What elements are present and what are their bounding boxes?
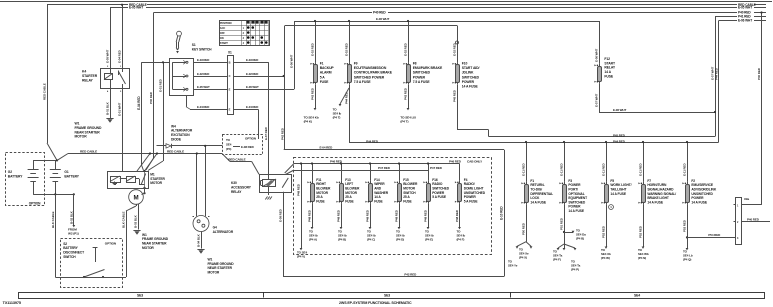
svg-text:(P4 T): (P4 T) [400,120,408,124]
svg-text:E-06 WHT: E-06 WHT [738,19,752,23]
svg-text:S2: S2 [63,242,67,246]
svg-text:B: B [229,60,231,64]
svg-text:ALARM: ALARM [320,71,332,75]
svg-text:E-11 RED: E-11 RED [559,163,563,176]
svg-text:E-02 RED: E-02 RED [403,42,407,56]
svg-text:P52 RED: P52 RED [601,225,605,238]
svg-text:W1: W1 [142,233,147,237]
svg-text:G1: G1 [64,170,68,174]
svg-text:E-03 RED: E-03 RED [197,58,209,62]
svg-text:14 A FUSE: 14 A FUSE [691,200,707,204]
svg-text:P44 RED: P44 RED [613,139,626,143]
svg-text:P48 RED: P48 RED [336,209,340,222]
svg-text:E-11 RED: E-11 RED [601,163,605,176]
svg-text:(P4): (P4) [226,147,231,151]
svg-text:E-04 RED: E-04 RED [320,146,334,150]
svg-text:(P4 C): (P4 C) [367,238,375,242]
svg-text:NEAR STARTER: NEAR STARTER [208,266,233,270]
svg-text:FUSE: FUSE [604,74,613,78]
svg-text:P43 RED: P43 RED [403,87,407,100]
svg-text:E-05 WHT: E-05 WHT [197,85,210,89]
svg-text:F8: F8 [413,62,417,66]
svg-text:E-01 RED: E-01 RED [159,78,163,92]
svg-text:B-02 BLK: B-02 BLK [69,210,73,224]
svg-text:ALTERNATOR: ALTERNATOR [213,230,234,234]
svg-text:E-06 WHT: E-06 WHT [613,108,626,112]
svg-text:ECU/TRANSMISSION: ECU/TRANSMISSION [354,66,387,70]
svg-text:P44 RED: P44 RED [366,139,379,143]
svg-text:(P4 F): (P4 F) [457,238,465,242]
svg-text:E-02 RED: E-02 RED [246,72,258,76]
svg-text:(P4 D): (P4 D) [396,238,404,242]
svg-text:P45 RED: P45 RED [613,134,626,138]
svg-text:MOTOR: MOTOR [150,181,162,185]
svg-text:(P4 B): (P4 B) [576,237,584,241]
svg-text:(P4 X): (P4 X) [519,255,527,259]
svg-text:P52 RED: P52 RED [638,225,642,238]
svg-text:SWITCHED POWER: SWITCHED POWER [354,75,385,79]
svg-text:X9a: X9a [744,197,749,201]
svg-text:B-01 BLK: B-01 BLK [106,101,110,115]
svg-text:P47 RED: P47 RED [378,166,391,170]
svg-text:SWITCHED: SWITCHED [462,75,480,79]
svg-text:E-07 WHT: E-07 WHT [594,94,598,107]
svg-text:(P4 E): (P4 E) [425,238,433,242]
svg-text:(P4 T): (P4 T) [333,116,341,120]
svg-text:SWITCH: SWITCH [63,255,76,259]
svg-text:(P4 P): (P4 P) [571,267,579,271]
svg-text:BATTERY: BATTERY [8,175,23,179]
svg-text:ACCESSORY: ACCESSORY [231,185,252,189]
svg-text:EMU/PARK BRAKE: EMU/PARK BRAKE [413,66,443,70]
svg-text:E-04 RED: E-04 RED [197,105,209,109]
svg-text:E-02 RED: E-02 RED [452,42,456,56]
svg-text:P43 RED: P43 RED [310,87,314,100]
svg-text:14 A FUSE: 14 A FUSE [610,192,626,196]
svg-text:E-06 WHT: E-06 WHT [246,85,259,89]
svg-text:M: M [133,195,138,202]
svg-text:BATTERY: BATTERY [63,246,78,250]
svg-text:P44 RED: P44 RED [714,67,718,80]
svg-text:W1: W1 [208,257,213,261]
svg-text:(P4 K): (P4 K) [304,120,312,124]
svg-text:SE4: SE4 [226,142,232,146]
svg-text:14 A FUSE: 14 A FUSE [647,200,663,204]
svg-text:P54 RED: P54 RED [708,233,721,237]
svg-text:(P4 Q): (P4 Q) [683,257,691,261]
svg-text:(P4 A): (P4 A) [309,238,317,242]
svg-text:P48 RED: P48 RED [365,209,369,222]
svg-text:OPTION: OPTION [29,202,41,206]
svg-text:CAB ONLY: CAB ONLY [467,159,483,163]
svg-text:K30: K30 [231,181,237,185]
svg-text:BATTERY: BATTERY [64,175,79,179]
svg-text:FUSE: FUSE [316,199,325,203]
svg-text:MOTOR: MOTOR [208,271,220,275]
svg-text:FRAME GROUND: FRAME GROUND [142,237,169,241]
svg-text:G2: G2 [8,170,12,174]
svg-text:F1: F1 [320,62,324,66]
svg-text:E-06 WHT: E-06 WHT [594,49,598,62]
svg-text:(P4 N): (P4 N) [638,256,646,260]
svg-text:P40 RED: P40 RED [747,217,760,221]
svg-text:P40 RED: P40 RED [757,67,761,80]
svg-text:START: START [220,41,228,45]
svg-text:TX1113975: TX1113975 [3,301,21,305]
svg-text:ON: ON [220,36,224,40]
svg-text:NEAR STARTER: NEAR STARTER [142,242,167,246]
svg-text:14 A FUSE: 14 A FUSE [530,200,546,204]
svg-text:P50 RED: P50 RED [521,222,525,235]
svg-text:B-04 BLK: B-04 BLK [197,233,201,247]
svg-text:E-02 RED: E-02 RED [197,72,209,76]
svg-text:E-04 RED: E-04 RED [246,105,258,109]
svg-text:E-02 RED: E-02 RED [310,42,314,56]
svg-text:OPTION: OPTION [105,242,117,246]
svg-text:FUSE: FUSE [403,199,412,203]
svg-text:SE4 Ye: SE4 Ye [508,263,518,267]
svg-text:P40 RED: P40 RED [149,91,153,104]
svg-text:E-05 WHT: E-05 WHT [738,6,752,10]
svg-text:POWER: POWER [413,75,426,79]
svg-text:5 A FUSE: 5 A FUSE [464,199,479,203]
svg-text:5 A: 5 A [320,75,326,79]
svg-text:FUSE: FUSE [320,80,329,84]
svg-text:E-05 WHT: E-05 WHT [106,50,110,63]
svg-text:KEY SWITCH: KEY SWITCH [192,48,212,52]
svg-text:POSITION: POSITION [220,21,232,25]
svg-text:STARTER: STARTER [150,177,165,181]
svg-text:SE3: SE3 [384,293,390,297]
svg-text:CONTROL/PARK BRAKE: CONTROL/PARK BRAKE [354,71,393,75]
svg-text:P53 RED: P53 RED [682,219,686,232]
svg-text:ACC: ACC [220,26,226,30]
svg-text:OFF: OFF [220,31,225,35]
svg-text:E-11 RED: E-11 RED [638,163,642,176]
svg-text:F10: F10 [462,62,468,66]
svg-text:BACKUP: BACKUP [320,66,335,70]
svg-text:K4: K4 [82,70,86,74]
svg-text:E-11 RED: E-11 RED [521,163,525,176]
svg-text:JDLINK: JDLINK [462,71,474,75]
svg-text:E-05 WHT: E-05 WHT [129,6,143,10]
svg-text:STARTER: STARTER [82,74,98,78]
svg-text:P45 RED: P45 RED [452,89,456,102]
svg-text:(P4 F): (P4 F) [553,257,561,261]
svg-text:FRAME GROUND: FRAME GROUND [75,126,103,130]
svg-text:DISCONNECT: DISCONNECT [63,251,84,255]
svg-text:G4: G4 [213,225,217,229]
svg-text:P49 RED: P49 RED [297,183,301,196]
svg-text:SE4: SE4 [634,293,640,297]
svg-text:(P4 V): (P4 V) [297,254,305,258]
svg-text:P51 RED: P51 RED [559,217,563,230]
svg-text:E-02 RED: E-02 RED [344,42,348,56]
svg-text:X1: X1 [228,50,232,54]
svg-text:P42 RED: P42 RED [404,272,417,276]
svg-text:E-06 WHT: E-06 WHT [290,55,294,68]
svg-text:MOTOR: MOTOR [142,246,154,250]
svg-text:P48 RED: P48 RED [423,209,427,222]
svg-text:E-11 RED: E-11 RED [682,163,686,176]
svg-text:P48 RED: P48 RED [394,209,398,222]
svg-text:POWER: POWER [462,80,475,84]
svg-text:F9: F9 [354,62,358,66]
svg-text:(P4 B): (P4 B) [338,238,346,242]
svg-text:NEAR STARTER: NEAR STARTER [75,130,101,134]
svg-text:P47 RED: P47 RED [430,166,443,170]
svg-text:SE3: SE3 [137,293,143,297]
svg-text:RED CABLE: RED CABLE [42,83,46,100]
svg-text:P42 RED: P42 RED [280,127,284,140]
svg-text:C: C [229,74,231,78]
svg-text:E-04 RED: E-04 RED [118,49,122,63]
svg-text:M1: M1 [150,172,155,176]
svg-text:P48 RED: P48 RED [307,209,311,222]
svg-text:E-08 RED: E-08 RED [241,145,255,149]
svg-text:DIODE: DIODE [171,137,182,141]
svg-text:7.5 A FUSE: 7.5 A FUSE [354,80,372,84]
svg-text:E-06 WHT: E-06 WHT [376,17,389,21]
svg-text:5 A FUSE: 5 A FUSE [432,195,447,199]
svg-text:BLK CABLE: BLK CABLE [51,211,55,228]
svg-text:RELAY: RELAY [231,190,242,194]
svg-text:E-01 WHT: E-01 WHT [118,103,122,116]
svg-text:FUSE: FUSE [345,199,354,203]
svg-text:RED CABLE: RED CABLE [228,157,245,161]
svg-text:E-07 RED: E-07 RED [264,126,268,140]
svg-text:E-04 RED: E-04 RED [137,96,141,110]
svg-text:E-09 RED: E-09 RED [279,208,283,222]
svg-text:MOTOR: MOTOR [75,135,88,139]
svg-text:(P4 W): (P4 W) [601,256,610,260]
svg-text:14 A FUSE: 14 A FUSE [568,209,584,213]
svg-text:OPTION: OPTION [245,136,256,140]
svg-text:RED CABLE: RED CABLE [80,149,97,153]
svg-text:14 A FUSE: 14 A FUSE [462,85,479,89]
svg-text:RELAY: RELAY [82,78,94,82]
svg-text:E-10 RED: E-10 RED [500,206,504,220]
svg-text:BLK CABLE: BLK CABLE [122,211,126,228]
svg-text:P40 RED: P40 RED [373,11,386,15]
svg-text:P46 RED: P46 RED [449,159,462,163]
svg-text:FUSE: FUSE [374,199,383,203]
svg-text:2WS EP-SYSTEM FUNCTIONAL SCHEM: 2WS EP-SYSTEM FUNCTIONAL SCHEMATIC [339,301,412,305]
svg-text:SWITCHED: SWITCHED [413,71,431,75]
svg-text:START AID/: START AID/ [462,66,480,70]
svg-text:P48 RED: P48 RED [455,209,459,222]
svg-text:B-03 BLK: B-03 BLK [134,214,138,228]
svg-text:E-03 RED: E-03 RED [246,58,258,62]
svg-text:FRAME GROUND: FRAME GROUND [208,262,235,266]
svg-text:W2 (P1): W2 (P1) [68,232,79,236]
svg-text:7.5 A FUSE: 7.5 A FUSE [413,80,431,84]
svg-text:W1: W1 [75,122,80,126]
